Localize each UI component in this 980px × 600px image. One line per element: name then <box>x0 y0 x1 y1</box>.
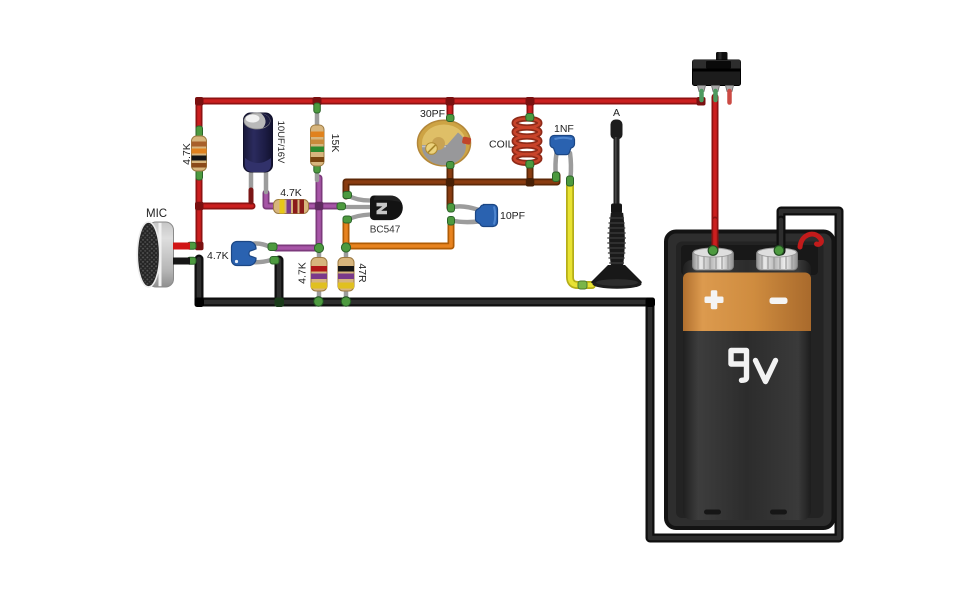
wire: brown branch coil bottom <box>527 164 534 182</box>
svg-text:30PF: 30PF <box>420 108 445 120</box>
node: 15K bottom <box>314 164 321 173</box>
wire: blue trimmer bottom lead <box>248 260 271 262</box>
wire: pin3 stub red dangling <box>727 91 732 103</box>
svg-text:BC547: BC547 <box>370 225 401 236</box>
wire: 15K leads <box>315 105 320 127</box>
inductor L1 COIL <box>515 119 540 163</box>
battery BT1 9V <box>683 248 811 520</box>
node: 1NF right lead tip / yellow top <box>567 176 574 186</box>
node: MIC black lead tip <box>187 257 196 264</box>
wire: yellow antenna wire <box>570 183 592 285</box>
wire: black ground net <box>199 211 839 538</box>
wire: brown branch 30PF to 10PF <box>447 166 454 208</box>
node: 10PF top tip <box>448 204 455 213</box>
wire: black overlay to negative terminal <box>777 220 786 251</box>
switch SW1 slide <box>693 52 741 103</box>
node: brown tee at coil drop <box>526 178 535 187</box>
wire: pin2 lead green <box>713 91 718 100</box>
node: 10PF bottom tip <box>448 217 455 226</box>
node: 30PF bottom pad <box>447 162 455 169</box>
variable-capacitor CV1 30PF trimmer <box>418 115 472 169</box>
node: brown cross at 30PF drop <box>446 178 455 187</box>
wire: pin1 lead green <box>699 91 704 100</box>
svg-text:10PF: 10PF <box>500 210 525 222</box>
wire: red drop rail to 30PF trimmer <box>447 101 454 114</box>
wire: 47R leads <box>344 249 349 260</box>
battery terminal positive <box>693 248 734 270</box>
node: MIC red lead tip <box>187 242 196 249</box>
wire: transistor base lead <box>345 205 370 209</box>
antenna A <box>591 120 642 289</box>
wire: MIC red lead <box>173 243 190 250</box>
svg-text:15K: 15K <box>329 134 341 153</box>
node: R1 bottom <box>196 169 203 180</box>
node: coil top pad <box>526 114 534 122</box>
battery minus mark <box>770 298 788 305</box>
resistor R1 4.7K vertical left <box>192 136 207 171</box>
node: transistor emitter tip <box>343 216 352 223</box>
battery 9v marking <box>731 351 776 382</box>
node: 15K top <box>314 103 321 113</box>
pin 2 <box>712 86 720 92</box>
node: yellow wire end green <box>578 281 587 289</box>
node: rail/15K top <box>313 97 322 106</box>
node: ground junction blue trimmer drop <box>275 298 285 308</box>
node: purple cross at base line <box>315 202 324 211</box>
svg-text:MIC: MIC <box>146 208 167 220</box>
lead tip maroon on cap negative leg <box>249 190 254 202</box>
battery holder case <box>666 232 834 529</box>
svg-text:47R: 47R <box>356 263 368 283</box>
wire: MIC black lead <box>173 258 190 265</box>
node: ground corner left <box>195 298 205 308</box>
svg-text:4.7K: 4.7K <box>297 262 309 284</box>
wire: 10PF leads <box>452 206 479 210</box>
pin 3 <box>726 86 734 92</box>
resistor R6 47R <box>338 258 354 292</box>
svg-text:COIL: COIL <box>489 139 514 151</box>
node: rail/coil drop <box>526 97 535 106</box>
transistor Q1 BC547 <box>370 195 403 220</box>
svg-text:1NF: 1NF <box>554 123 574 135</box>
wire: transistor emitter lead <box>348 215 370 220</box>
wire: red overlay to positive terminal <box>712 220 719 250</box>
node: battery negative connection <box>774 246 784 256</box>
wire: red top power rail <box>199 101 701 246</box>
wire: vertical 4.7K (R5) leads <box>317 249 322 260</box>
node: transistor base tip <box>337 203 346 210</box>
node: rail right elbow at switch <box>697 97 706 106</box>
battery plus mark <box>705 290 724 309</box>
resistor R3 4.7K horizontal <box>274 200 309 214</box>
wire: orange emitter loop <box>346 220 451 246</box>
junction dots <box>195 97 706 307</box>
capacitor C2 1NF <box>550 136 575 155</box>
wire: purple vertical from 15K down <box>276 178 319 248</box>
trimmer-pot RV1 4.7K blue <box>232 242 257 266</box>
capacitor C3 10PF <box>476 205 498 227</box>
svg-text:4.7K: 4.7K <box>181 143 193 165</box>
wire: 1NF leads <box>555 153 556 175</box>
node: purple junction at R5 top <box>314 243 323 252</box>
node: blue trimmer bottom tip <box>270 257 279 265</box>
node: 30PF top pad <box>447 115 455 122</box>
node: coil bottom pad <box>526 161 534 169</box>
node: 1NF left lead tip <box>553 172 560 182</box>
wire: blue trimmer top lead <box>248 243 269 246</box>
battery bottom slots <box>704 510 721 515</box>
node: rail/left corner <box>195 97 204 106</box>
node: ground corner right <box>646 298 656 308</box>
node: red corner at MIC <box>195 242 204 251</box>
svg-text:10UF/16V: 10UF/16V <box>275 121 286 164</box>
wire: purple horizontal through 4.7K to transistor base <box>266 193 340 206</box>
capacitor C1 10UF/16V electrolytic <box>244 113 273 172</box>
gray component leads <box>248 105 571 301</box>
node: red tee at cap branch <box>195 202 204 211</box>
node: orange junction at 47R top <box>341 243 350 252</box>
wire: red clip stub curl near negative terminal <box>800 234 821 247</box>
node: blue trimmer top tip <box>268 243 277 251</box>
resistor R2 15K <box>311 125 325 166</box>
component bodies will be appended here <box>137 52 833 528</box>
node: R1 top <box>196 126 203 137</box>
green connection pads <box>187 103 587 306</box>
pin 1 <box>698 86 706 92</box>
node: 47R bottom on ground <box>341 297 351 307</box>
wire: red drop rail to coil top <box>527 101 534 115</box>
wire: black drop from blue trimmer to ground <box>275 260 284 300</box>
node: battery positive connection <box>708 246 718 256</box>
svg-text:A: A <box>613 107 620 119</box>
svg-text:4.7K: 4.7K <box>207 250 229 262</box>
battery terminal negative <box>757 248 798 270</box>
node: rail/30PF drop <box>446 97 455 106</box>
wire: brown collector bus <box>346 175 557 196</box>
node: transistor collector tip <box>343 192 352 199</box>
svg-text:4.7K: 4.7K <box>280 187 302 199</box>
microphone MIC <box>137 222 190 287</box>
wires layer <box>199 97 839 538</box>
wire: red branch to electrolytic cap <box>199 203 252 210</box>
wire: red from switch middle pin to battery positive <box>712 97 719 250</box>
wire: electrolytic cap legs <box>249 168 254 192</box>
wire: transistor collector lead <box>348 196 370 201</box>
resistor R5 4.7K vertical bottom <box>311 258 327 292</box>
node: R5 bottom on ground <box>314 297 324 307</box>
